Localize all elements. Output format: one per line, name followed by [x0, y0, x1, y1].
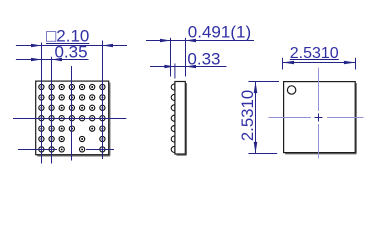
dimension text underline (2.10)	[46, 43, 89, 45]
dimension 0.33 arrow right (outside, pointing left)	[186, 65, 197, 69]
dimension 0.35 arrow left (outside, pointing right)	[31, 58, 42, 62]
horizontal centerline	[269, 117, 311, 119]
dimension 0.491(1) arrow left (outside, pointing right)	[160, 39, 171, 43]
body left extension line (0.33)	[174, 64, 176, 79]
vertical dim 2.5310 extension line top	[248, 81, 279, 83]
extension line col2	[51, 57, 53, 164]
dimension 0.33 line	[150, 66, 227, 68]
svg-text:0.491(1): 0.491(1)	[188, 22, 251, 41]
vertical dim arrow top (inside, pointing up)	[254, 82, 258, 94]
vertical dim 2.5310 line	[255, 82, 257, 154]
solder balls 7x7 grid (44 present)	[39, 84, 44, 89]
seating plane / ball tangent extension line	[170, 38, 172, 77]
horizontal dim arrow left (inside, pointing left)	[283, 61, 295, 65]
package body shadow	[109, 83, 111, 156]
dimension 0.35 line	[16, 59, 89, 61]
side body shadow	[185, 83, 187, 155]
centerline col4 vertical	[71, 66, 73, 161]
svg-text:0.35: 0.35	[54, 43, 87, 62]
center cross mark	[315, 117, 323, 119]
centerline row7 horizontal right segment	[86, 149, 114, 151]
dimension 2.10 line	[16, 45, 127, 47]
top view body outline	[284, 82, 356, 153]
horizontal dim 2.5310 line	[283, 62, 356, 64]
vertical centerline	[318, 68, 320, 111]
horizontal dim arrow right (inside, pointing right)	[344, 61, 356, 65]
pin 1 indicator circle	[287, 86, 295, 94]
extension line col7	[102, 41, 104, 160]
centerline row7 horizontal left segment	[18, 149, 57, 151]
svg-text:0.33: 0.33	[187, 49, 220, 68]
dimension 0.35 arrow right (outside, pointing left)	[52, 58, 63, 62]
vertical dim 2.5310 extension line bottom	[248, 153, 277, 155]
dimension text underline (2.5310 horizontal)	[290, 59, 339, 61]
top view shadow	[355, 83, 357, 154]
dimension 0.33 arrow left (outside, pointing right)	[164, 65, 175, 69]
dimension 2.10 arrow right (outside, pointing left)	[103, 44, 114, 48]
body right extension line	[185, 38, 187, 77]
vertical dim arrow bottom (inside, pointing down)	[254, 142, 258, 154]
dimension 2.10 arrow left (outside, pointing right)	[31, 44, 42, 48]
dimension 0.491(1) line	[146, 40, 254, 42]
solder ball bumps (side profile)	[171, 84, 175, 90]
svg-text:2.5310: 2.5310	[238, 90, 257, 141]
package body outline (bottom view)	[36, 81, 109, 155]
extension line col1	[41, 43, 43, 164]
side body outline	[175, 82, 185, 155]
horizontal dim 2.5310 extension line right	[355, 58, 357, 70]
horizontal dim 2.5310 extension line left	[282, 58, 284, 70]
centerline row4 horizontal	[13, 118, 126, 120]
dimension 0.491(1) arrow right (outside, pointing left)	[186, 39, 197, 43]
